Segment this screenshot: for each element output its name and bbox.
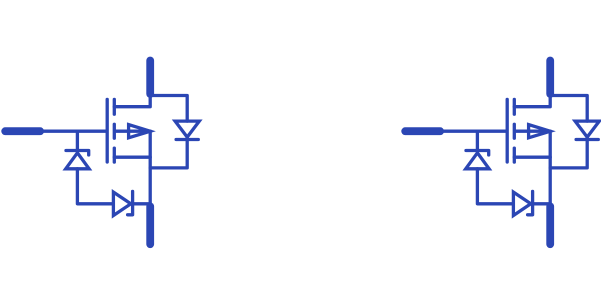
MOSFET Q1 body arrow wire bbox=[116, 130, 150, 133]
zener Z1 cathode bar with tail bbox=[66, 151, 89, 156]
drain pin D1 bbox=[146, 61, 154, 95]
gate pin G2 bbox=[405, 127, 440, 135]
MOSFET Q2 gate bar bbox=[506, 99, 509, 162]
body diode DB1 cathode bar bbox=[176, 138, 198, 141]
MOSFET Q2 channel segment source bbox=[513, 148, 516, 162]
zener Z2 cathode bar with tail bbox=[466, 151, 489, 156]
zener Z2 anode triangle bbox=[466, 153, 489, 169]
MOSFET Q1 channel segment body bbox=[113, 124, 116, 138]
wire zener Z2 to bottom row bbox=[477, 169, 512, 204]
wire drain to top branch bbox=[114, 96, 187, 122]
wire drain to top branch bbox=[514, 96, 587, 122]
MOSFET Q1 body arrow head bbox=[129, 125, 151, 138]
wire source bbox=[514, 156, 550, 159]
diode D2 anode triangle bbox=[113, 192, 130, 215]
body diode DB2 triangle bbox=[575, 121, 599, 137]
MOSFET Q2 body arrow head bbox=[529, 125, 551, 138]
body diode DB2 cathode bar bbox=[576, 138, 598, 141]
MOSFET Q1 gate bar bbox=[106, 99, 109, 162]
diode D4 anode triangle bbox=[513, 192, 530, 215]
wire source rail bbox=[549, 131, 552, 204]
MOSFET Q1 channel segment source bbox=[113, 148, 116, 162]
gate pin G1 bbox=[5, 127, 40, 135]
wire diode D2 to source bbox=[133, 202, 151, 205]
body diode DB1 triangle bbox=[175, 121, 199, 137]
drain pin D2 bbox=[546, 61, 554, 95]
diode D2 cathode bar with tail bbox=[128, 191, 133, 214]
zener Z1 anode triangle bbox=[66, 153, 89, 169]
source pin S1 bbox=[146, 206, 154, 244]
MOSFET Q1 channel segment drain bbox=[113, 99, 116, 114]
transistor symbol Q2 (right MOSFET with protection diodes) bbox=[405, 61, 599, 245]
diode D4 cathode bar with tail bbox=[528, 191, 533, 214]
wire source rail bbox=[149, 131, 152, 204]
wire source bbox=[114, 156, 150, 159]
MOSFET Q2 body arrow wire bbox=[516, 130, 550, 133]
source pin S2 bbox=[546, 206, 554, 244]
wire gate to zener Z1 bbox=[76, 131, 79, 150]
wire diode D4 to source bbox=[533, 202, 551, 205]
MOSFET Q2 channel segment body bbox=[513, 124, 516, 138]
wire body diode to source rail bbox=[550, 137, 587, 168]
wire zener Z1 to bottom row bbox=[77, 169, 112, 204]
transistor symbol Q1 (left MOSFET with protection diodes) bbox=[5, 61, 199, 245]
MOSFET Q2 channel segment drain bbox=[513, 99, 516, 114]
wire gate to zener Z2 bbox=[476, 131, 479, 150]
wire gate bbox=[441, 130, 506, 133]
wire gate bbox=[41, 130, 106, 133]
wire body diode to source rail bbox=[150, 137, 187, 168]
